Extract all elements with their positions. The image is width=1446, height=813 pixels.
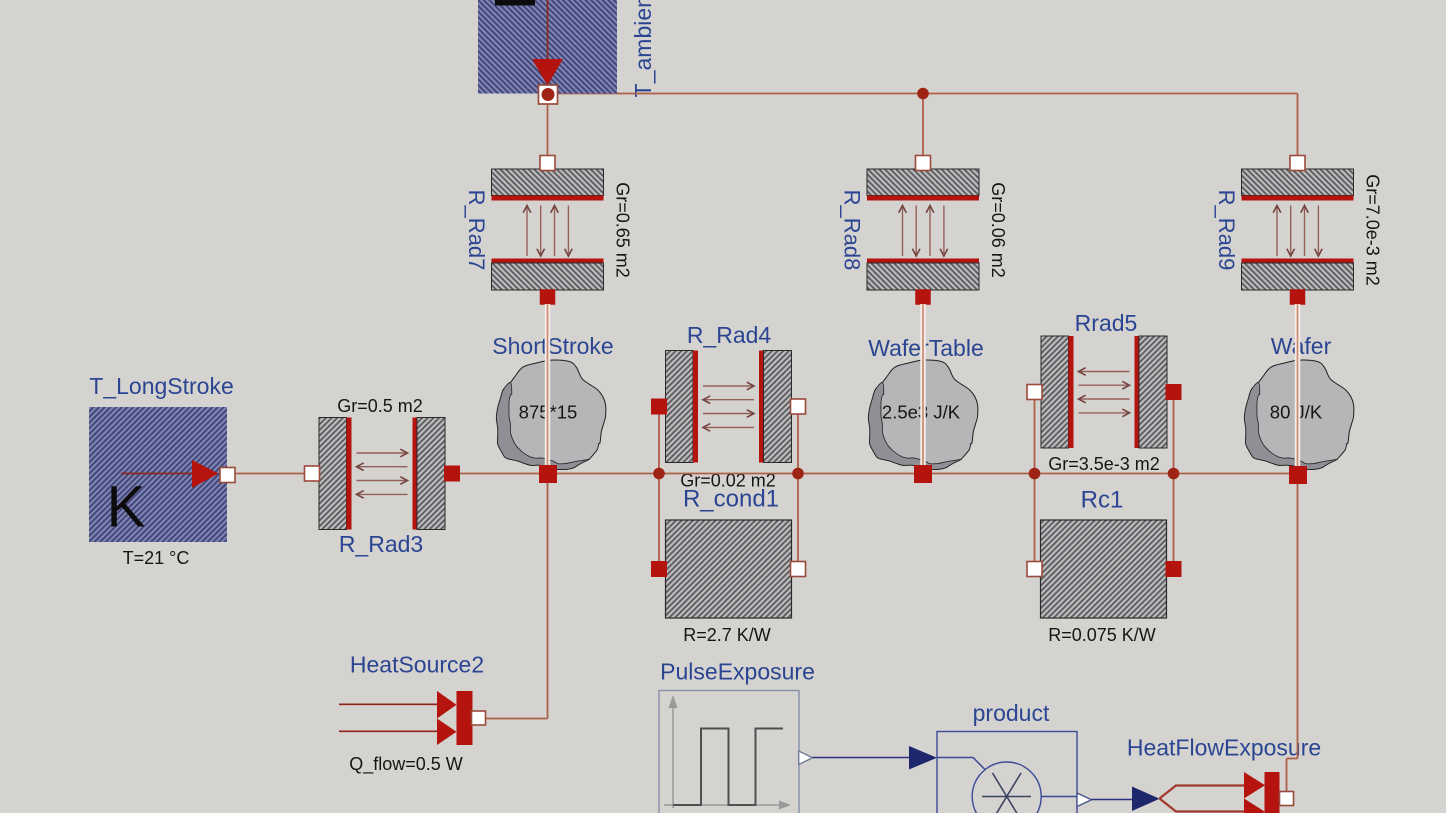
svg-text:WaferTable: WaferTable <box>868 335 983 361</box>
svg-text:T_ambient: T_ambient <box>630 0 656 97</box>
HeatFlowExposure port <box>1280 792 1294 806</box>
heat capacitor ShortStroke <box>496 360 605 470</box>
T_LongStroke arrow <box>121 473 200 475</box>
wire top bus <box>548 93 1298 95</box>
junction dots R_Rad4/R_cond1 <box>653 468 665 480</box>
wire Rrad5/Rc1 left stub <box>1034 392 1036 569</box>
wire main bus left <box>228 473 307 475</box>
R_Rad7 top port <box>540 156 555 171</box>
svg-text:HeatFlowExposure: HeatFlowExposure <box>1127 735 1321 761</box>
HeatSource2 port <box>472 711 486 725</box>
R_Rad4 left port <box>651 399 667 415</box>
svg-text:Gr=0.65 m2: Gr=0.65 m2 <box>613 182 633 278</box>
wire main bus right <box>458 473 1298 475</box>
T_ambient port with junction <box>539 85 558 104</box>
junction dot top bus <box>917 88 929 100</box>
svg-text:R_Rad3: R_Rad3 <box>339 531 423 557</box>
radiator R_Rad3 <box>319 418 445 530</box>
R_Rad8 top port <box>916 156 931 171</box>
svg-text:K: K <box>107 475 146 540</box>
svg-text:PulseExposure: PulseExposure <box>660 659 815 685</box>
svg-text:Rc1: Rc1 <box>1081 487 1124 514</box>
svg-text:HeatSource2: HeatSource2 <box>350 652 484 678</box>
R_Rad9 top port <box>1290 156 1305 171</box>
wire T_ambient to R_Rad7 <box>547 100 549 157</box>
WaferTable port <box>914 465 932 483</box>
heat source HeatSource2 <box>339 691 473 745</box>
PulseExposure output port <box>799 751 813 765</box>
svg-text:product: product <box>973 700 1050 726</box>
heat flow source HeatFlowExposure <box>1160 772 1280 813</box>
radiator R_Rad7 <box>492 169 604 290</box>
wire bus to R_Rad9 <box>1297 94 1299 158</box>
svg-text:R=0.075 K/W: R=0.075 K/W <box>1048 625 1156 645</box>
svg-text:R_Rad8: R_Rad8 <box>840 190 865 271</box>
radiator Rrad5 <box>1041 336 1167 448</box>
svg-text:R_Rad4: R_Rad4 <box>687 322 772 348</box>
ShortStroke port <box>539 465 557 483</box>
R_cond1 right port <box>791 562 806 577</box>
wire R_Rad4/R_cond1 left stub <box>658 407 660 569</box>
svg-text:R_Rad9: R_Rad9 <box>1214 190 1239 271</box>
R_Rad3 left port <box>305 466 320 481</box>
svg-text:R_Rad7: R_Rad7 <box>464 190 489 271</box>
Rrad5 left port <box>1027 385 1042 400</box>
R_Rad7 bottom port <box>540 289 556 305</box>
wire R_Rad4/R_cond1 right stub <box>797 407 799 569</box>
Rrad5 right port <box>1166 384 1182 400</box>
svg-text:T_LongStroke: T_LongStroke <box>89 373 233 399</box>
Wafer port <box>1289 466 1307 484</box>
multiplier product <box>937 732 1077 813</box>
svg-text:Gr=0.5 m2: Gr=0.5 m2 <box>337 396 423 416</box>
temperature source T_ambient <box>478 0 617 94</box>
Rc1 right port <box>1166 561 1182 577</box>
wire bus to HeatSource2 <box>547 474 549 719</box>
wire Rrad5/Rc1 right stub <box>1173 392 1175 569</box>
wire R_Rad9 to Wafer (highlighted) <box>1295 304 1301 467</box>
svg-text:T=21 °C: T=21 °C <box>123 548 190 568</box>
svg-text:Wafer: Wafer <box>1271 333 1332 359</box>
conductor Rc1 <box>1041 520 1167 618</box>
R_Rad9 bottom port <box>1290 289 1306 305</box>
R_Rad8 bottom port <box>915 289 931 305</box>
R_cond1 left port <box>651 561 667 577</box>
wire R_Rad7 to ShortStroke (highlighted) <box>545 304 551 466</box>
signal wire PulseExposure to product <box>813 757 910 759</box>
T_ambient arrow <box>547 0 549 60</box>
junction dots Rrad5/Rc1 <box>1029 468 1041 480</box>
svg-text:Rrad5: Rrad5 <box>1075 310 1138 336</box>
R_Rad3 right port <box>444 466 460 482</box>
wire bus to R_Rad8 <box>922 94 924 158</box>
svg-text:Q_flow=0.5 W: Q_flow=0.5 W <box>349 754 463 775</box>
T_ambient K text fragment <box>495 0 535 6</box>
svg-text:Gr=3.5e-3 m2: Gr=3.5e-3 m2 <box>1048 454 1160 474</box>
conductor R_cond1 <box>666 520 792 618</box>
svg-text:ShortStroke: ShortStroke <box>492 333 613 359</box>
wire Wafer to HeatFlowExposure <box>1297 474 1299 759</box>
svg-text:Gr=7.0e-3 m2: Gr=7.0e-3 m2 <box>1363 174 1383 286</box>
product output port <box>1077 793 1092 807</box>
product input arrow <box>909 746 937 770</box>
svg-text:Gr=0.06 m2: Gr=0.06 m2 <box>988 182 1008 278</box>
heat capacitor WaferTable <box>868 360 977 470</box>
svg-text:R_cond1: R_cond1 <box>683 486 779 513</box>
temperature source T_LongStroke <box>89 407 227 542</box>
pulse source PulseExposure <box>659 691 799 813</box>
Rc1 left port <box>1027 562 1042 577</box>
R_Rad4 right port <box>791 399 806 414</box>
signal wire product to HeatFlowExposure <box>1092 799 1133 801</box>
T_LongStroke port <box>220 468 235 483</box>
HeatFlowExposure input arrow <box>1132 787 1160 812</box>
radiator R_Rad4 <box>666 351 792 463</box>
radiator R_Rad8 <box>867 169 979 290</box>
wire R_Rad8 to WaferTable (highlighted) <box>920 304 926 466</box>
svg-text:R=2.7 K/W: R=2.7 K/W <box>683 625 771 645</box>
heat capacitor Wafer <box>1244 360 1353 470</box>
radiator R_Rad9 <box>1242 169 1354 290</box>
